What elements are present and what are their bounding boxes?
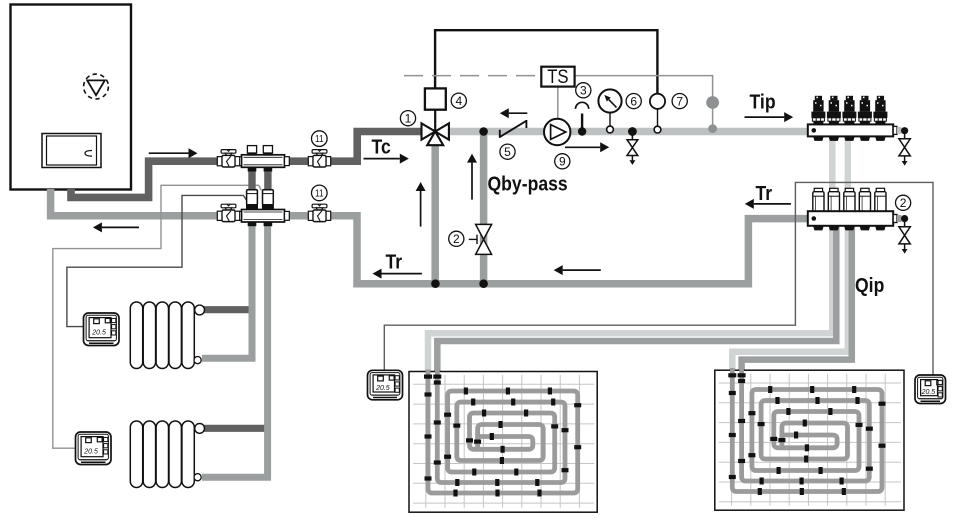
label 9 (555, 154, 570, 169)
svg-text:20.5: 20.5 (921, 389, 936, 396)
room thermostat floor zone 1 (368, 370, 403, 400)
3-way mixing valve 1 (422, 123, 449, 145)
actuator box 4 (434, 110, 436, 132)
floor heating zone box (zone 2) (715, 370, 904, 510)
label 4 (451, 93, 466, 108)
dark risers between manifolds (252, 165, 268, 190)
svg-text:7: 7 (676, 94, 683, 108)
pressure gauge 6 (598, 89, 621, 132)
radiator 2 flow pipe (dark) (204, 425, 265, 432)
floor heating zone box (zone 1) (409, 372, 597, 513)
radiator connections (195, 305, 205, 315)
thermostat wire to actuator (dark) (67, 195, 246, 326)
svg-text:Tr: Tr (386, 250, 403, 272)
TS wire to sensor well (575, 76, 713, 97)
room thermostat radiator 1 (84, 313, 120, 346)
supply manifold floor (with actuators) (808, 96, 902, 141)
junction dots (479, 127, 488, 136)
arrow above check valve (509, 112, 528, 114)
air vent 7 (650, 94, 665, 133)
TS wire to pump (557, 87, 559, 121)
shut-off valve return left (11) (217, 204, 239, 221)
pipe by-pass (480, 132, 488, 284)
svg-text:20.5: 20.5 (83, 448, 98, 455)
svg-text:11: 11 (315, 134, 324, 145)
svg-text:2: 2 (900, 196, 907, 210)
floor loop pipe return spiral (zone 1) (437, 370, 565, 483)
label 6 (626, 94, 641, 109)
label 3 (576, 83, 591, 98)
TS box (541, 66, 574, 87)
label 2 manifold (896, 195, 911, 210)
arrow return mid (563, 269, 601, 271)
supply manifold (radiators) (237, 155, 290, 168)
floor loop pipe supply spiral (zone 2) (732, 368, 882, 492)
svg-text:Tc: Tc (372, 135, 391, 157)
svg-text:Tr: Tr (756, 182, 773, 204)
radiator return riser 2 (202, 226, 268, 477)
shut-off valve return right (11) (308, 204, 330, 221)
pipe floor return zone 1 (gray) (437, 226, 836, 372)
arrow Tr left (382, 273, 422, 275)
svg-text:11: 11 (315, 189, 324, 200)
label 11 return (312, 185, 328, 201)
svg-text:6: 6 (630, 94, 637, 108)
floor loop pipe supply spiral (zone 1) (428, 370, 578, 494)
pipe floor supply zone 2 (light) (732, 136, 848, 371)
sensor well (gray ball) (706, 96, 719, 133)
control wire actuator-vent (black) (435, 30, 657, 94)
boiler fan symbol (84, 74, 109, 99)
label 11 supply (312, 131, 328, 147)
label 5 (500, 144, 515, 159)
floor grid (zone 2) (719, 374, 901, 506)
return manifold floor (with flow meters) (808, 188, 902, 230)
label 7 (672, 94, 687, 109)
check valve 5 (500, 120, 527, 138)
svg-text:TS: TS (547, 66, 568, 87)
svg-text:4: 4 (455, 94, 462, 108)
svg-text:9: 9 (559, 155, 566, 169)
radiator 1 (130, 302, 194, 369)
pipe boiler flow Tc (dark) (71, 132, 421, 198)
arrow Tip (745, 116, 785, 118)
radiator 1 flow pipe (dark) (204, 306, 249, 313)
svg-text:20.5: 20.5 (91, 329, 106, 336)
temperature sensor 3 (576, 102, 589, 135)
boiler (11, 5, 132, 190)
pipe floor return zone 2 (gray) (742, 226, 852, 371)
pump 9 (544, 119, 570, 145)
supply manifold port nuts (248, 167, 257, 171)
shut-off valve supply left (11) (217, 150, 239, 167)
svg-text:1: 1 (405, 112, 412, 126)
pipe boiler return Tr (light gray) (51, 189, 808, 284)
supply manifold drain (899, 127, 910, 166)
supply manifold vent caps (247, 146, 256, 156)
svg-text:Qip: Qip (855, 274, 884, 296)
svg-text:Tip: Tip (750, 91, 776, 113)
room thermostat floor zone 2 (915, 375, 946, 404)
radiator return riser 1 (202, 226, 252, 358)
arrow Tc (364, 158, 400, 160)
thermostat wire to actuator (gray) (53, 185, 261, 448)
pipe clips (zone 1) (424, 375, 581, 497)
room thermostat radiator 2 (76, 432, 112, 465)
arrow up by-pass (471, 163, 473, 200)
shut-off valve supply right (11) (308, 150, 330, 167)
arrow boiler flow (149, 152, 189, 154)
pipe clips (zone 2) (728, 373, 885, 495)
thermo-electric actuators (246, 190, 258, 209)
return manifold (radiators) (237, 210, 290, 223)
arrow Tr right (754, 203, 791, 205)
label 1 (400, 111, 415, 126)
arrow up mixing (420, 191, 422, 227)
arrow boiler return (102, 226, 139, 228)
arrow pump out (565, 146, 600, 148)
pipe mixing valve to return (431, 143, 439, 284)
svg-text:3: 3 (580, 84, 587, 98)
label 2 by-pass (449, 231, 464, 246)
drain valve on pipe (627, 127, 638, 165)
TS wire dashed (404, 75, 540, 77)
radiator 2 (130, 421, 194, 488)
boiler control panel (42, 134, 101, 168)
return manifold drain (899, 215, 910, 254)
pipe floor supply zone 1 (light) (428, 136, 832, 372)
svg-text:20.5: 20.5 (375, 385, 390, 392)
floor grid (zone 1) (413, 375, 594, 508)
pipe mixed flow Tip (light) (449, 128, 808, 136)
svg-text:5: 5 (504, 145, 511, 159)
svg-text:Qby-pass: Qby-pass (488, 173, 568, 195)
return manifold port nuts (248, 222, 257, 226)
floor loop pipe return spiral (zone 2) (742, 368, 870, 481)
svg-text:2: 2 (453, 232, 460, 246)
thermostat wire floor zones (384, 182, 933, 375)
by-pass balancing valve 2 (469, 224, 492, 254)
